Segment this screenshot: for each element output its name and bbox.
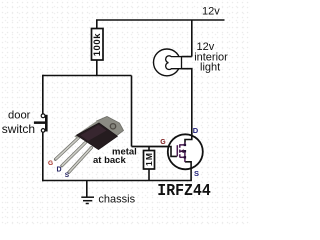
svg-text:IRFZ44: IRFZ44 — [157, 181, 211, 200]
svg-text:at back: at back — [93, 155, 126, 166]
svg-text:G: G — [160, 139, 166, 146]
svg-text:1M: 1M — [144, 152, 154, 166]
svg-text:S: S — [65, 172, 70, 179]
svg-text:G: G — [48, 160, 53, 167]
svg-text:12v: 12v — [202, 5, 220, 17]
svg-text:D: D — [193, 126, 199, 135]
svg-text:light: light — [200, 62, 220, 74]
svg-text:door: door — [8, 110, 31, 122]
svg-text:S: S — [194, 169, 199, 178]
svg-text:100k: 100k — [92, 33, 103, 57]
svg-text:chassis: chassis — [98, 193, 135, 205]
svg-text:switch: switch — [2, 122, 35, 136]
svg-text:D: D — [57, 167, 62, 174]
